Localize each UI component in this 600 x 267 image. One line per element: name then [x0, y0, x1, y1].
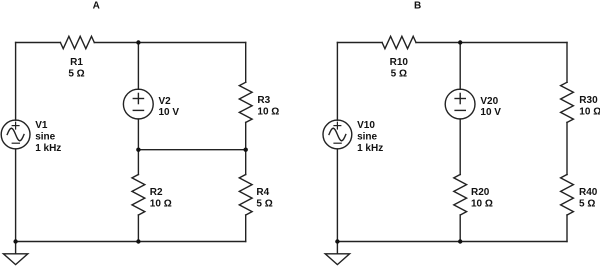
wire A middle vertical mid [137, 119, 139, 175]
svg-text:5 Ω: 5 Ω [579, 199, 595, 210]
svg-text:V10: V10 [357, 120, 375, 131]
svg-text:1 kHz: 1 kHz [35, 143, 61, 154]
wire A middle horizontal [138, 149, 245, 151]
svg-text:R20: R20 [471, 187, 490, 198]
svg-text:R4: R4 [256, 187, 269, 198]
svg-text:1 kHz: 1 kHz [357, 143, 383, 154]
node junction B top [458, 40, 462, 44]
wire A top-left horizontal [16, 42, 61, 44]
svg-text:R30: R30 [579, 95, 598, 106]
node junction A bottom-mid [136, 239, 140, 243]
resistor R1 [60, 36, 94, 79]
ground A [3, 254, 27, 265]
wire B middle vertical mid [459, 119, 461, 175]
wire A middle vertical lower [137, 215, 139, 242]
svg-text:10 V: 10 V [480, 107, 501, 118]
svg-text:sine: sine [35, 131, 55, 142]
wire A middle vertical upper [137, 43, 139, 90]
svg-text:5 Ω: 5 Ω [391, 69, 407, 80]
wire A right vertical mid [245, 122, 247, 174]
resistor R40 [561, 175, 598, 216]
node junction B bottom-mid [458, 239, 462, 243]
resistor R2 [132, 175, 172, 216]
node junction A mid-right [244, 148, 248, 152]
svg-text:10 Ω: 10 Ω [257, 107, 279, 118]
node junction B bottom-left [335, 239, 339, 243]
wire A right vertical upper [245, 43, 247, 83]
source V1 [1, 120, 61, 154]
svg-text:V20: V20 [480, 96, 498, 107]
svg-text:5 Ω: 5 Ω [256, 199, 272, 210]
svg-text:R1: R1 [70, 57, 83, 68]
wire A bottom horizontal [16, 241, 246, 243]
wire B top-right horizontal [416, 42, 567, 44]
wire B right vertical upper [566, 43, 568, 83]
svg-text:sine: sine [357, 131, 377, 142]
resistor R30 [561, 82, 600, 122]
wire A left vertical lower [15, 149, 17, 254]
resistor R10 [382, 36, 416, 79]
svg-text:10 V: 10 V [159, 107, 180, 118]
wire B right vertical lower [566, 215, 568, 242]
svg-text:10 Ω: 10 Ω [579, 107, 600, 118]
svg-text:V2: V2 [159, 96, 172, 107]
resistor R3 [239, 82, 279, 122]
source V10 [323, 120, 383, 154]
wire A top-right horizontal [94, 42, 245, 44]
svg-text:R3: R3 [257, 95, 270, 106]
wire B left vertical lower [336, 149, 338, 254]
svg-text:R2: R2 [150, 187, 163, 198]
node junction A top [136, 40, 140, 44]
ground B [325, 254, 349, 265]
node junction A mid-left [136, 148, 140, 152]
svg-text:R10: R10 [390, 57, 409, 68]
wire A right vertical lower [245, 215, 247, 242]
wire B left vertical upper [336, 43, 338, 121]
resistor R4 [239, 175, 272, 216]
wire B middle vertical upper [459, 43, 461, 90]
svg-text:R40: R40 [579, 187, 598, 198]
wire B right vertical mid [566, 122, 568, 174]
wire B bottom horizontal [337, 241, 567, 243]
node junction A bottom-left [13, 239, 17, 243]
svg-text:10 Ω: 10 Ω [150, 199, 172, 210]
svg-text:A: A [93, 0, 100, 11]
svg-text:V1: V1 [35, 120, 48, 131]
svg-text:B: B [414, 0, 421, 11]
wire B top-left horizontal [337, 42, 382, 44]
source V20 [445, 89, 501, 119]
source V2 [123, 89, 179, 119]
wire A left vertical upper [15, 43, 17, 121]
wire B middle vertical lower [459, 215, 461, 242]
svg-text:5 Ω: 5 Ω [68, 69, 84, 80]
svg-text:10 Ω: 10 Ω [471, 199, 493, 210]
resistor R20 [454, 175, 493, 216]
